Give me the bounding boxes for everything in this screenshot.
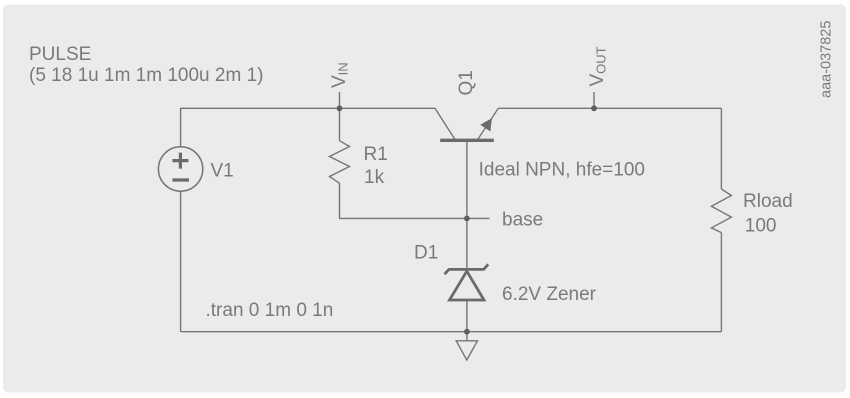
zener diode D1 triangle bbox=[450, 271, 485, 300]
node VOUT junction dot bbox=[591, 105, 597, 111]
ground symbol bbox=[456, 341, 477, 360]
wire base stub bbox=[467, 217, 490, 219]
svg-text:base: base bbox=[502, 209, 543, 230]
svg-text:R1: R1 bbox=[364, 144, 388, 165]
V1 plus sign bbox=[172, 153, 189, 180]
zener diode D1 bar bbox=[445, 264, 489, 274]
transistor Q1 emitter arrow bbox=[480, 118, 492, 131]
node VIN junction dot bbox=[337, 105, 343, 111]
V1 minus sign bbox=[172, 178, 189, 181]
svg-text:100: 100 bbox=[745, 216, 777, 237]
node ground junction dot bbox=[464, 329, 470, 335]
resistor R1 bbox=[330, 141, 350, 184]
Q1 collector lead bbox=[435, 108, 456, 140]
voltage source V1 circle bbox=[158, 147, 202, 191]
svg-text:V1: V1 bbox=[211, 161, 234, 182]
svg-text:D1: D1 bbox=[414, 243, 438, 264]
svg-text:Ideal NPN, hfe=100: Ideal NPN, hfe=100 bbox=[479, 160, 645, 181]
svg-text:1k: 1k bbox=[364, 167, 385, 188]
wire Q1 base down to zener bbox=[466, 142, 468, 269]
wire VIN node to R1 bbox=[339, 108, 341, 140]
wire V1 bottom bbox=[180, 191, 182, 332]
svg-text:6.2V Zener: 6.2V Zener bbox=[502, 284, 597, 305]
wire Rload bottom bbox=[720, 233, 722, 332]
svg-text:PULSE: PULSE bbox=[29, 44, 91, 65]
wire VIN stub bbox=[339, 92, 341, 108]
node base junction dot bbox=[464, 216, 470, 222]
wire Q1 emitter to VOUT node to Rload bbox=[498, 107, 721, 109]
wire bottom rail bbox=[181, 331, 722, 333]
wire R1 bottom to base node bbox=[340, 183, 467, 218]
wire Rload top bbox=[720, 108, 722, 189]
wire V1 top to VIN node to Q1 collector bbox=[181, 108, 435, 147]
svg-text:Rload: Rload bbox=[743, 191, 793, 212]
transistor Q1 base bar bbox=[440, 139, 494, 142]
resistor Rload bbox=[711, 189, 731, 233]
wire zener to bottom node bbox=[466, 300, 468, 332]
svg-text:.tran 0 1m 0 1n: .tran 0 1m 0 1n bbox=[206, 300, 334, 321]
wire VOUT stub bbox=[593, 92, 595, 108]
svg-text:(5 18 1u 1m 1m 100u 2m 1): (5 18 1u 1m 1m 100u 2m 1) bbox=[29, 65, 263, 86]
wire ground stub bbox=[466, 332, 468, 341]
svg-text:aaa-037825: aaa-037825 bbox=[819, 21, 835, 98]
svg-text:Q1: Q1 bbox=[456, 70, 477, 95]
Q1 emitter lead bbox=[477, 108, 498, 140]
